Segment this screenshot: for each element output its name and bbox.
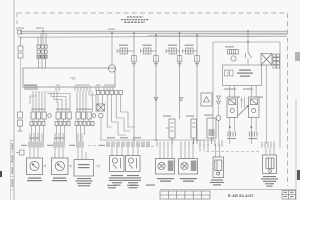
R1 label bbox=[109, 175, 125, 186]
IB1 small parts bbox=[225, 70, 234, 76]
ECU pin number labels inside bottom edge bbox=[56, 84, 115, 87]
misc tick symbol right of B3 bbox=[96, 165, 100, 168]
connector grid CG1 bbox=[273, 54, 280, 68]
S2 label bbox=[180, 178, 197, 182]
cluster A labels bbox=[31, 109, 70, 110]
B3 internal text bbox=[78, 164, 90, 168]
wire tap x38 bbox=[37, 37, 39, 45]
right actuator RC bbox=[263, 155, 277, 174]
valve T bbox=[213, 157, 224, 178]
wire tap x43 bbox=[42, 31, 44, 45]
sensor cluster E3 bbox=[166, 48, 182, 62]
motor M2 bbox=[52, 158, 69, 175]
dashed frame right bbox=[287, 13, 289, 186]
motor M1 bbox=[27, 158, 43, 175]
RC label bbox=[261, 176, 278, 187]
relay block RB1 bbox=[227, 97, 238, 118]
label RH1 bbox=[225, 46, 234, 47]
connector stack X1 above ECU bbox=[37, 45, 47, 58]
junction dots under relay blocks bbox=[229, 126, 252, 128]
control unit B3 wires bbox=[78, 148, 86, 160]
connector pin pairs row (left groups) bbox=[29, 142, 83, 148]
wire tap x46 bbox=[45, 33, 47, 45]
title block right cells bbox=[282, 191, 296, 200]
label E3 bbox=[168, 45, 177, 46]
junctions on distribution line bbox=[133, 139, 198, 141]
pin group side labels bbox=[21, 145, 105, 146]
cluster A1 component boxes bbox=[31, 112, 46, 119]
svg-text:762: 762 bbox=[70, 77, 76, 81]
left page border line bbox=[13, 0, 15, 200]
wire from K1 down left side bbox=[20, 58, 22, 112]
right page border segment bbox=[295, 100, 297, 200]
connector row below ECU right bbox=[97, 91, 123, 95]
solenoid S2 wires bbox=[181, 147, 193, 159]
ECU box U762 bbox=[23, 68, 115, 87]
right subcircuit outer loop left wire bbox=[212, 42, 214, 140]
cluster A wires to pins bbox=[32, 119, 70, 142]
inline arrow symbol on vertical x156 bbox=[154, 98, 157, 102]
cluster A routing brackets bbox=[30, 91, 70, 112]
dashed jumper mid bbox=[141, 145, 155, 147]
cluster B connector row bbox=[75, 122, 94, 126]
motor M2 wires bbox=[55, 148, 63, 159]
inline arrow symbol on vertical x181 bbox=[179, 98, 182, 102]
switch SW1 bbox=[246, 49, 252, 62]
solenoid S1 bbox=[156, 159, 175, 175]
relay unit R2 bbox=[126, 156, 141, 172]
B3 label bbox=[76, 178, 93, 186]
tiny labels above bus bbox=[18, 28, 115, 30]
right subcircuit top wire bbox=[213, 41, 280, 43]
wire tap x20.5 bbox=[20, 37, 22, 46]
M2 label bbox=[52, 178, 67, 182]
cluster B wires bbox=[77, 119, 90, 142]
revision table bbox=[160, 191, 210, 199]
sensor cluster E4 bbox=[183, 48, 200, 62]
bottom frame line bbox=[160, 189, 296, 191]
right edge smudge bbox=[295, 52, 300, 61]
M2 side tick bbox=[68, 165, 71, 168]
ground symbols G1 G2 left bbox=[18, 112, 23, 131]
tall component H3 with hatch bbox=[207, 118, 216, 144]
binder mark right edge bbox=[297, 170, 300, 180]
cluster B circle part bbox=[92, 114, 96, 118]
page background bbox=[0, 0, 300, 200]
relay block RB2 bbox=[249, 97, 260, 118]
tiny labels near H components bbox=[163, 115, 213, 117]
pins X1 to ECU bbox=[39, 59, 46, 69]
motor M1 wires bbox=[30, 148, 38, 159]
wire from circle up to bus bbox=[111, 33, 113, 65]
ground ticks under sensor cluster boxes bbox=[132, 64, 199, 66]
cluster B labels bbox=[76, 109, 92, 110]
label E2 bbox=[143, 45, 152, 46]
wiring cluster B verticals below ECU bbox=[77, 91, 86, 112]
right subcircuit right wire bbox=[279, 42, 281, 148]
valve T wires bbox=[200, 144, 220, 157]
left legend strip text ticks bbox=[11, 143, 13, 187]
fuse F1 at bus left end bbox=[18, 30, 22, 34]
bottom feed wires left bbox=[30, 133, 82, 141]
S1 label bbox=[157, 178, 174, 182]
cluster A2 component boxes bbox=[56, 112, 71, 119]
R2 label bbox=[125, 175, 141, 186]
relay contact box mid bbox=[97, 104, 105, 111]
standalone small part bottom-left bbox=[16, 150, 24, 155]
vertical wires right of cluster B bbox=[98, 95, 103, 141]
cluster B routing brackets bbox=[89, 91, 96, 112]
control unit B3 bbox=[74, 160, 94, 177]
relay unit R1 wires bbox=[112, 147, 122, 156]
small labels above pins row bbox=[29, 137, 141, 138]
bus line 4 right bbox=[148, 34, 287, 36]
cluster B component boxes bbox=[76, 112, 91, 119]
bus line 1 bbox=[20, 30, 287, 32]
arrow marks A1 bbox=[217, 96, 221, 105]
tall component H2 bbox=[191, 119, 197, 144]
wire E1 vertical bbox=[133, 33, 135, 140]
labels under relay blocks bbox=[227, 138, 258, 139]
solenoid S1 wires bbox=[160, 147, 172, 159]
right actuator RC wires bbox=[266, 148, 274, 156]
labels above bottom frame mid bbox=[107, 185, 155, 189]
tall component H1 bbox=[166, 119, 175, 144]
ECU bottom connector group ticks bbox=[25, 87, 37, 91]
junction dot subcircuit bbox=[247, 41, 249, 43]
title block tick text bbox=[284, 192, 294, 197]
wiring cluster A verticals below ECU bbox=[33, 91, 45, 112]
M1 label bbox=[27, 178, 42, 182]
sensor cluster E1 bbox=[117, 48, 136, 62]
connector K1 small left stack bbox=[18, 46, 23, 58]
cluster A connector row bbox=[30, 122, 70, 126]
left legend strip bbox=[11, 139, 15, 200]
binder mark left edge bbox=[0, 171, 2, 177]
dashed frame left stub bbox=[16, 13, 18, 30]
subcircuit drop wires bbox=[230, 62, 267, 100]
dashed jumper mid-left bbox=[88, 145, 105, 147]
bus line 3 bbox=[20, 36, 287, 37]
feed wire from bus to subcircuit bbox=[247, 31, 249, 49]
relay circle on ECU top right bbox=[108, 65, 115, 72]
label E1 bbox=[119, 45, 128, 46]
relay block drop wires bbox=[230, 118, 256, 145]
label E4 bbox=[185, 45, 194, 46]
connector ticks under relay blocks bbox=[228, 132, 257, 137]
staircase routing wires bbox=[107, 95, 135, 136]
tiny labels near relay blocks bbox=[224, 89, 263, 98]
sensor cluster E2 bbox=[141, 48, 159, 62]
wire E4 vertical bbox=[196, 35, 198, 144]
dashed frame top bbox=[17, 12, 288, 14]
mid element between relay blocks bbox=[240, 97, 245, 108]
actuating arrow between relay blocks bbox=[238, 107, 248, 116]
cluster A1 circle part bbox=[48, 114, 52, 118]
bottom distribution line bbox=[100, 139, 215, 141]
M1 side tick bbox=[43, 165, 46, 168]
junction dots on bus bbox=[42, 30, 249, 36]
T label bbox=[210, 180, 224, 186]
ECU bottom pins group2 bbox=[56, 87, 113, 91]
connector ticks along y144 right bbox=[157, 140, 274, 148]
wire tap x41 bbox=[40, 33, 42, 45]
solenoid S2 bbox=[179, 159, 198, 175]
ECU bottom connector label bbox=[24, 85, 37, 86]
dashed jumper right bbox=[206, 151, 259, 153]
connector pin pairs row (middle group) bbox=[107, 142, 149, 148]
lamp circle L1 bbox=[231, 56, 236, 61]
wire E3 vertical bbox=[179, 33, 181, 119]
warning box W1 with triangle bbox=[201, 93, 212, 106]
wire C2 bbox=[218, 106, 220, 116]
coil circle C2 bbox=[216, 116, 221, 121]
arrowhead bbox=[247, 105, 249, 108]
svg-text:R.AR.53.A/57: R.AR.53.A/57 bbox=[228, 194, 254, 198]
IB1 internal text bbox=[237, 70, 253, 77]
bus line 2 bbox=[20, 32, 287, 34]
wire E2 vertical bbox=[155, 35, 157, 140]
right column wires down bbox=[266, 100, 268, 144]
resistor RH1 hatched bbox=[228, 50, 239, 55]
relay unit R1 bbox=[110, 156, 125, 172]
title text block bbox=[121, 17, 149, 22]
coil circle mid bbox=[99, 113, 104, 118]
relay RL1 with cross bbox=[261, 54, 272, 66]
inner box IB1 bbox=[223, 65, 262, 86]
relay unit R2 wires bbox=[128, 147, 138, 156]
